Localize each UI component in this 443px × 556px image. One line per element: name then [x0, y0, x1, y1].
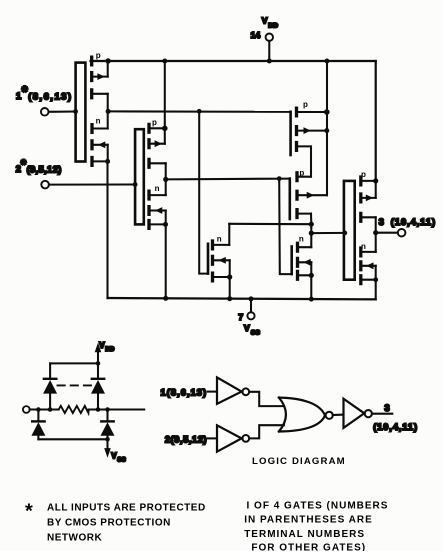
wire protection bottom rail [38, 437, 109, 442]
inverter gate B (logic diagram, input 2) [217, 425, 249, 451]
wire VDD rail right drop to output inverter [375, 61, 377, 181]
svg-text:(10,4,11): (10,4,11) [391, 217, 436, 227]
wire NOR output to n-pair [229, 223, 311, 225]
svg-text:p: p [152, 118, 157, 127]
svg-text:14: 14 [251, 30, 261, 40]
svg-text:(9,5,12): (9,5,12) [27, 164, 62, 175]
node NOT-1 branch [197, 109, 202, 114]
transistor P4 p-channel (lower of series pair) [290, 169, 327, 225]
svg-text:7: 7 [238, 312, 243, 322]
NOR gate (logic diagram) [279, 398, 333, 432]
node D1 anode [48, 407, 53, 412]
wire NOR output down branch [310, 224, 312, 247]
node NOR output [309, 222, 314, 227]
transistor N3 n-channel (parallel pair, gate NOT-1) [208, 224, 232, 299]
node NOR output branch to output inverter [309, 231, 314, 236]
svg-text:SS: SS [117, 456, 126, 463]
wire VDD rail [91, 60, 376, 62]
wire NOT-1 vertical down to N3 gate [199, 111, 208, 273]
node NOT-2 branch [277, 176, 282, 181]
svg-text:DD: DD [268, 23, 278, 30]
wire dashed gate-oxide link between D1 and D2 [58, 384, 92, 386]
svg-text:FOR OTHER GATES): FOR OTHER GATES) [251, 543, 366, 551]
svg-text:p: p [303, 100, 308, 109]
svg-text:SS: SS [251, 330, 261, 337]
wire inverter-1 output row to P3 gate [108, 110, 291, 112]
resistor R1 protection series resistor [59, 406, 89, 413]
svg-text:DD: DD [105, 346, 115, 353]
svg-text:NETWORK: NETWORK [47, 532, 102, 543]
transistor N1 n-channel (input-1 inverter) [92, 111, 110, 165]
diode D4 VSS to input (lower-right) [101, 410, 115, 440]
node D4 cathode [105, 407, 110, 412]
svg-text:IN PARENTHESES ARE: IN PARENTHESES ARE [244, 515, 373, 526]
svg-text:n: n [96, 117, 101, 126]
wire inverter A output to NOR input [249, 392, 284, 406]
svg-text:3: 3 [379, 217, 384, 227]
svg-text:ALL INPUTS ARE PROTECTED: ALL INPUTS ARE PROTECTED [47, 503, 206, 514]
inverter gate A (logic diagram, input 1) [217, 377, 249, 404]
node inverter-2 output [163, 177, 168, 182]
power arrow VSS of protection network [104, 439, 126, 463]
svg-text:LOGIC DIAGRAM: LOGIC DIAGRAM [252, 456, 346, 467]
wire NOT-2 vertical down to N4 gate [279, 179, 292, 275]
wire NOR output to output-inverter gate [311, 232, 345, 234]
output terminal 3 (10,4,11) [373, 217, 436, 237]
input terminal of protection network [23, 406, 59, 413]
wire N2 source down to VSS rail [165, 224, 167, 298]
transistor N4 n-channel (parallel pair, gate NOT-2) [292, 235, 314, 300]
gate rectangle U2 input-2 inverter common gate [135, 129, 144, 224]
svg-text:p: p [96, 51, 101, 60]
diode D1 input to VDD (upper-left) [43, 363, 57, 409]
node logic input 1 label [161, 387, 218, 397]
svg-text:V: V [244, 323, 250, 333]
wire protection top rail [50, 361, 100, 366]
diode D2 input to VDD (upper-right) [91, 363, 105, 409]
node logic input 2 label [165, 434, 217, 444]
transistor P1 p-channel (input-1 inverter) [92, 51, 111, 111]
note 1 of 4 gates [244, 500, 388, 553]
wire VDD vertical to p-stack bulk [325, 59, 330, 196]
wire inverter B output to NOR input [249, 425, 284, 438]
svg-text:2(9,5,12): 2(9,5,12) [165, 434, 207, 444]
wire NOR output to inverter C [333, 414, 344, 416]
caption LOGIC DIAGRAM [252, 456, 346, 467]
svg-text:V: V [262, 16, 268, 26]
svg-text:BY CMOS PROTECTION: BY CMOS PROTECTION [47, 518, 171, 529]
svg-text:(8,6,13): (8,6,13) [28, 92, 72, 103]
svg-text:3: 3 [385, 403, 390, 413]
power terminal VDD pin 14 [251, 16, 279, 64]
wire inverter-2 output row to P4 gate [166, 178, 290, 181]
node resistor left / D3 anode [36, 407, 41, 412]
power arrow VDD of protection network [95, 341, 115, 364]
input terminal 1 (8,6,13) [16, 84, 78, 116]
svg-text:n: n [299, 235, 304, 244]
svg-text:*: * [25, 501, 33, 523]
transistor N2 n-channel (input-2 inverter) [149, 179, 168, 228]
gate rectangle U3 output inverter common gate [342, 181, 354, 280]
svg-text:(10,4,11): (10,4,11) [373, 422, 418, 432]
input terminal 2 (9,5,12) [16, 156, 138, 188]
node inverter-1 output [106, 109, 111, 114]
wire N1 source down to VSS rail [106, 161, 108, 298]
transistor P5 p-channel (output inverter) [361, 170, 379, 233]
wire VSS rail [108, 296, 376, 302]
svg-text:I OF 4 GATES (NUMBERS: I OF 4 GATES (NUMBERS [247, 500, 389, 511]
footnote asterisk protection note [25, 501, 206, 544]
node logic output 3 (10,4,11) [372, 403, 418, 432]
transistor N5 n-channel (output inverter) [361, 233, 378, 300]
transistor P3 p-channel (upper of series pair) [291, 100, 330, 177]
svg-text:TERMINAL NUMBERS: TERMINAL NUMBERS [244, 529, 365, 540]
svg-text:n: n [155, 184, 160, 193]
gate rectangle U1 input-1 inverter common gate [76, 63, 86, 162]
svg-text:1(8,6,13): 1(8,6,13) [161, 387, 208, 397]
svg-text:n: n [217, 234, 222, 243]
wire protection middle node right [89, 408, 145, 410]
power terminal VSS pin 7 [238, 296, 260, 336]
node D2 anode [96, 407, 101, 412]
svg-text:1: 1 [16, 91, 21, 101]
transistor P2 p-channel (input-2 inverter) [149, 59, 168, 180]
diode D3 VSS to input (lower-left) [31, 410, 45, 440]
inverter gate C (logic diagram, output) [344, 399, 372, 428]
